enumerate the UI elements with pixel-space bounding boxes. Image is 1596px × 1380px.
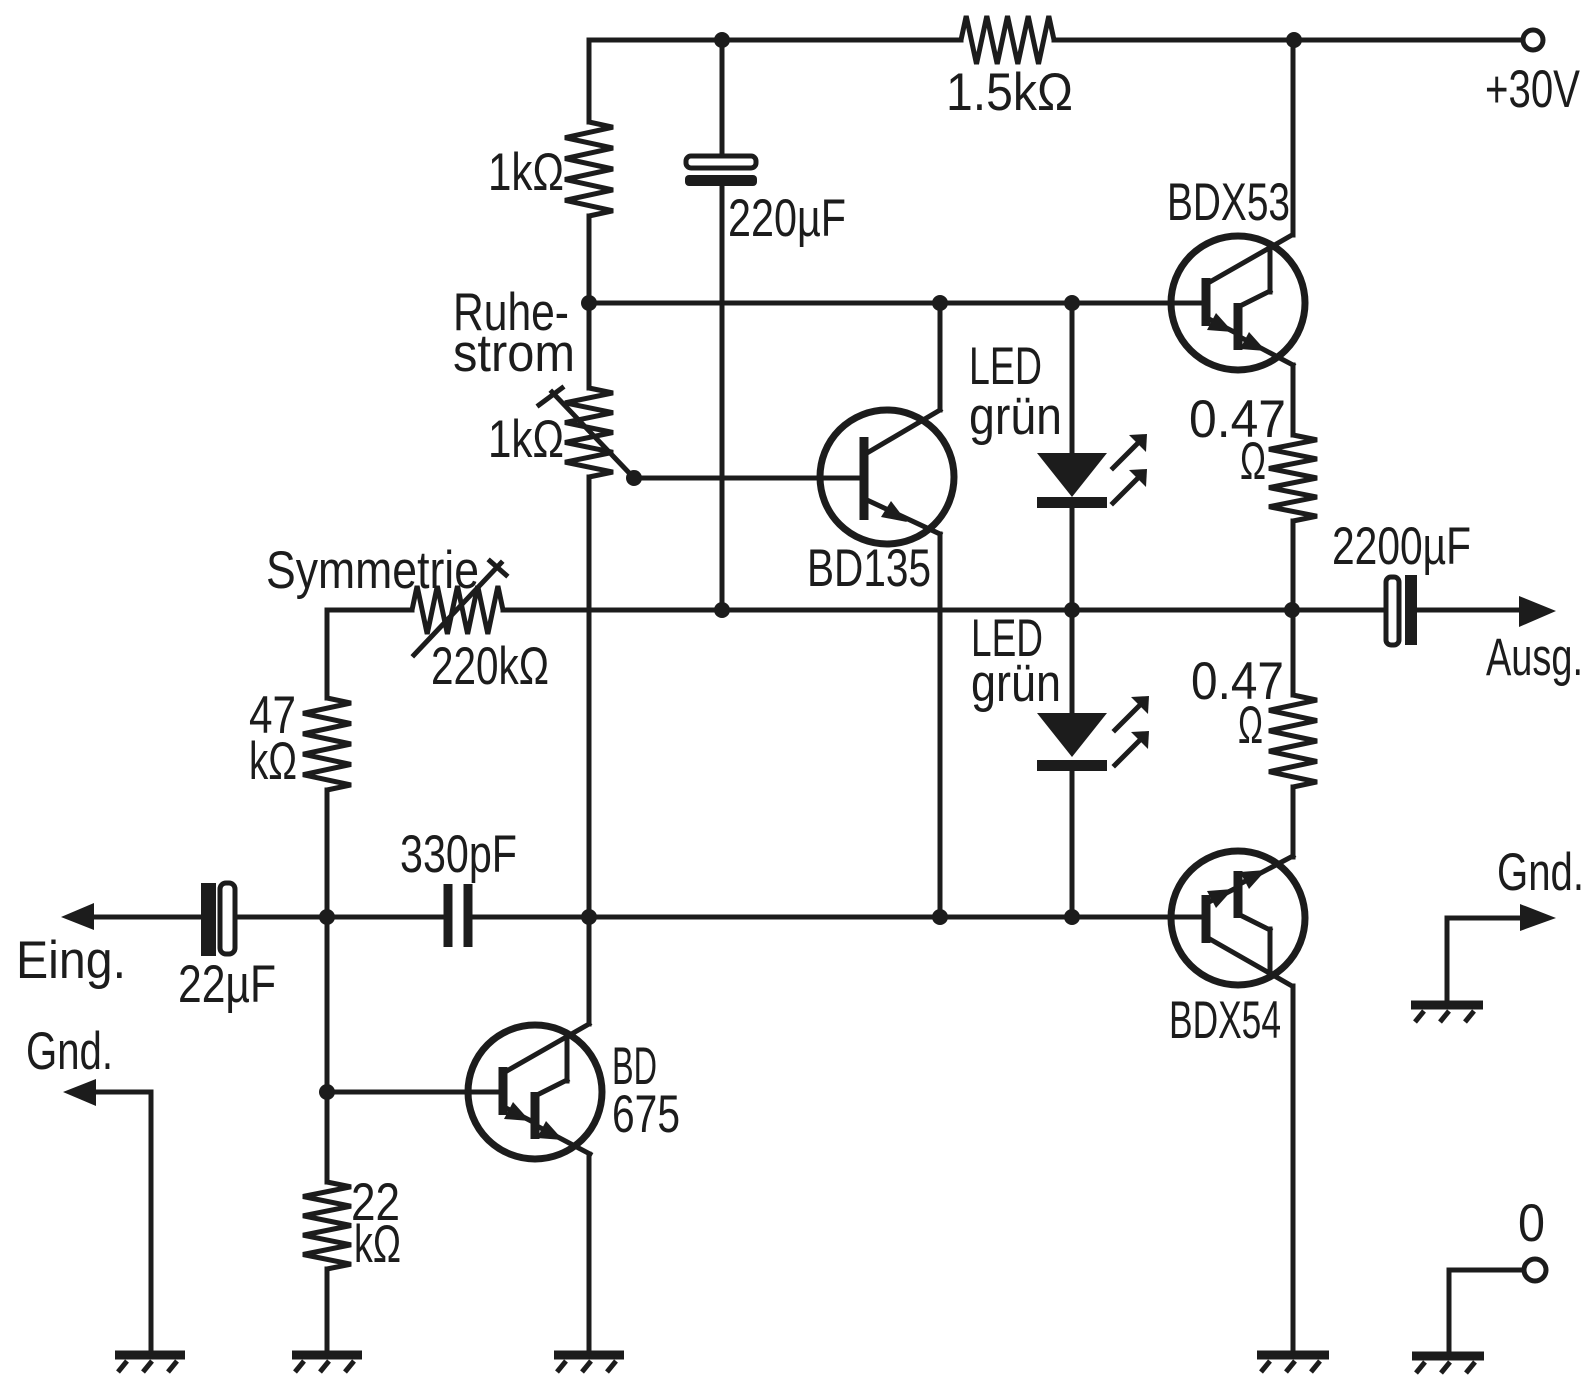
capacitor 22uF negative plate — [220, 883, 235, 954]
wire 220uF bottom lead to output line — [720, 186, 725, 610]
wire BD135 collector pin — [938, 303, 943, 410]
node junction output with 220uF — [714, 602, 730, 618]
wire 0 terminal to corner and down — [1449, 1270, 1524, 1352]
svg-text:675: 675 — [612, 1085, 680, 1144]
BD675 T2 emitter diagonal — [535, 1125, 590, 1154]
BDX54 base bar 1 — [1202, 895, 1211, 943]
wire 330pF to BDX54 base rail — [468, 915, 1206, 920]
svg-text:220µF: 220µF — [728, 189, 846, 248]
BDX53 circle — [1171, 236, 1305, 370]
node junction top rail to BDX53 collector — [1286, 32, 1302, 48]
LED2 emission arrow a — [1115, 696, 1149, 730]
wire left vertical from rail to 1k — [587, 40, 592, 122]
capacitor 2200uF left plate — [1386, 577, 1399, 645]
wire BDX54 collector pin down to ground — [1291, 986, 1296, 1351]
node junction with BD675 collector branch — [581, 909, 597, 925]
transistor Q BD675 darlington — [468, 1024, 602, 1159]
capacitor 22uF positive plate — [201, 883, 216, 956]
BD135 collector diagonal — [867, 410, 940, 453]
svg-text:0.47: 0.47 — [1189, 390, 1286, 449]
resistor 0.47 Ohm lower — [1269, 695, 1317, 787]
svg-text:0: 0 — [1518, 1194, 1545, 1253]
diode LED1 cathode bar — [1037, 497, 1107, 508]
diode LED2 green triangle — [1037, 713, 1107, 757]
wire 22uF to input node — [235, 915, 445, 920]
ground symbol under BDX54 — [1257, 1355, 1329, 1372]
BD135 circle — [820, 410, 954, 544]
node junction LED string top — [1064, 295, 1080, 311]
wire top +30V rail right segment — [1054, 38, 1522, 43]
terminal Eing arrowhead — [61, 903, 94, 930]
wire output to Ausg arrow — [1417, 608, 1521, 613]
terminal Gnd right arrowhead — [1520, 904, 1556, 931]
wire wiper to BD135 base — [634, 476, 864, 481]
svg-text:strom: strom — [453, 324, 575, 383]
svg-text:Symmetrie: Symmetrie — [266, 541, 479, 600]
wire BDX54 emitter pin up — [1291, 787, 1296, 856]
wire LED2 to lower base rail — [1070, 771, 1075, 917]
wire 0.47 lower to BDX54 emitter pin — [1291, 787, 1296, 857]
capacitor 2200uF right plate — [1405, 575, 1417, 645]
BDX53 T2 collector diagonal — [1242, 291, 1270, 305]
wire top +30V rail left segment — [589, 38, 961, 43]
LED2 emission arrow b — [1115, 731, 1149, 765]
potentiometer Symmetrie wiper arm — [414, 563, 501, 655]
BD675 internal collector vertical — [565, 1037, 570, 1081]
node junction with BD135 emitter — [932, 909, 948, 925]
node junction LED string with output line — [1064, 602, 1080, 618]
ground symbol right middle — [1411, 1005, 1483, 1022]
capacitor 330pF right plate — [464, 884, 473, 947]
wire BD675 base node to base bar — [327, 1090, 503, 1095]
node junction BD135 collector — [932, 295, 948, 311]
capacitor 330pF left plate — [444, 884, 453, 947]
potentiometer 1k wiper tee bar — [539, 388, 562, 405]
BDX53 T2 emitter diagonal — [1238, 336, 1293, 365]
transistor Q BD135 — [820, 410, 954, 544]
wire 1k bottom to Ruhestrom node and down to pot — [587, 216, 592, 388]
BD135 emitter diagonal — [867, 500, 940, 534]
BDX53 T1 emitter diagonal — [1207, 318, 1236, 333]
svg-text:Eing.: Eing. — [16, 931, 126, 990]
wire output node to 0.47 lower — [1291, 610, 1296, 695]
BD135 base bar — [860, 437, 869, 520]
wire BDX53 emitter pin to 0.47 — [1291, 365, 1296, 435]
svg-text:1kΩ: 1kΩ — [488, 143, 564, 202]
ground symbol left — [115, 1355, 185, 1372]
BDX53 T1 emitter arrowhead — [1207, 313, 1233, 332]
BDX54 internal collector vertical — [1268, 929, 1273, 973]
resistor R 1kOhm upper — [565, 122, 613, 216]
svg-text:2200µF: 2200µF — [1332, 517, 1471, 576]
BDX54 T2 collector diagonal — [1242, 916, 1270, 930]
capacitor 220uF negative plate — [685, 175, 757, 186]
BD675 T1 emitter arrowhead — [504, 1102, 530, 1121]
BDX53 T2 emitter arrowhead — [1240, 332, 1266, 351]
svg-text:Ω: Ω — [1238, 696, 1263, 755]
wire pot bottom down through output line to feedback node — [587, 477, 592, 917]
BD675 T1 collector diagonal — [505, 1024, 589, 1072]
wire BD675 emitter pin down to ground — [587, 1154, 592, 1351]
wire BDX53 collector pin to rail — [1291, 40, 1296, 235]
terminal +30V open circle — [1523, 30, 1543, 50]
resistor 1.5kOhm in +30V rail — [961, 16, 1054, 64]
wire 47k branch top corner — [325, 610, 330, 698]
BDX53 internal collector vertical — [1268, 248, 1273, 292]
svg-text:Gnd.: Gnd. — [1497, 843, 1584, 902]
potentiometer Symmetrie 220kOhm zigzag — [412, 586, 503, 634]
svg-text:BDX54: BDX54 — [1169, 991, 1281, 1050]
transistor Q BDX53 darlington — [1171, 235, 1305, 370]
terminal 0 open circle — [1524, 1259, 1546, 1281]
BDX53 T1 collector diagonal — [1208, 235, 1292, 283]
node junction top rail to 220uF — [714, 32, 730, 48]
BD675 T1 emitter diagonal — [504, 1107, 533, 1122]
LED1 emission arrow b — [1113, 469, 1147, 503]
svg-text:grün: grün — [969, 387, 1062, 446]
BDX54 T2 emitter diagonal — [1238, 856, 1293, 885]
svg-text:Ausg.: Ausg. — [1486, 628, 1583, 687]
svg-text:Ω: Ω — [1240, 432, 1266, 491]
node junction BD675 base — [319, 1084, 335, 1100]
svg-text:Gnd.: Gnd. — [26, 1022, 113, 1081]
terminal Ausg arrowhead — [1519, 596, 1556, 627]
svg-text:kΩ: kΩ — [249, 732, 297, 791]
wire 22k to ground — [325, 1269, 330, 1351]
BD675 T2 collector diagonal — [539, 1080, 567, 1094]
svg-text:kΩ: kΩ — [354, 1215, 401, 1274]
resistor 0.47 Ohm upper — [1269, 435, 1317, 521]
ground symbol under 22k — [292, 1355, 362, 1372]
wire 0.47 upper to output line — [1291, 521, 1296, 610]
svg-text:1kΩ: 1kΩ — [488, 410, 564, 469]
BDX54 T1 emitter arrowhead — [1207, 889, 1233, 908]
wire Eing to 22uF — [94, 915, 201, 920]
diode LED2 cathode bar — [1037, 760, 1107, 771]
wire BD135 emitter pin down to lower base rail — [938, 534, 943, 917]
node junction input with 47k — [319, 909, 335, 925]
wire LED1 to LED2 — [1070, 508, 1075, 713]
diode LED1 green triangle — [1037, 453, 1107, 497]
BDX54 T1 collector diagonal — [1208, 938, 1292, 986]
resistor 22kOhm — [303, 1182, 351, 1269]
wire output line middle — [503, 608, 1386, 613]
svg-text:BDX53: BDX53 — [1167, 173, 1290, 232]
potentiometer 1k wiper arm diagonal — [552, 392, 634, 478]
wire Ruhestrom rail to BDX53 base — [589, 301, 1206, 306]
wire Gnd left to corner and down — [96, 1092, 151, 1351]
BDX54 T2 emitter arrowhead — [1240, 870, 1266, 889]
potentiometer 1kOhm Ruhestrom zigzag — [565, 388, 613, 477]
LED1 emission arrow a — [1113, 434, 1147, 468]
node junction output with 0.47 resistors — [1284, 602, 1300, 618]
svg-text:22µF: 22µF — [178, 955, 276, 1014]
terminal Gnd left arrowhead — [63, 1079, 96, 1106]
ground symbol under BD675 — [554, 1355, 624, 1372]
node junction with LED string bottom — [1064, 909, 1080, 925]
svg-text:220kΩ: 220kΩ — [431, 637, 549, 696]
svg-text:1.5kΩ: 1.5kΩ — [946, 63, 1073, 122]
svg-text:BD135: BD135 — [807, 539, 931, 598]
node wiper junction — [626, 470, 642, 486]
ground symbol bottom right — [1412, 1356, 1484, 1373]
svg-text:+30V: +30V — [1485, 60, 1580, 119]
wire Gnd right to corner and down — [1447, 918, 1520, 1001]
BD675 base bar 1 — [499, 1067, 508, 1115]
BD675 circle — [468, 1025, 602, 1159]
potentiometer Symmetrie wiper tee bar — [490, 561, 506, 575]
svg-text:330pF: 330pF — [400, 825, 517, 884]
transistor Q BDX54 darlington PNP — [1171, 851, 1305, 986]
BDX54 circle — [1171, 851, 1305, 985]
resistor 47kOhm — [303, 698, 351, 790]
BDX53 base bar 2 — [1234, 303, 1243, 350]
wire BD675 collector pin up to node — [587, 917, 592, 1024]
wire output line from Symmetrie corner — [327, 608, 412, 613]
BDX54 T1 emitter diagonal — [1207, 888, 1236, 903]
svg-text:grün: grün — [971, 654, 1061, 713]
BD135 emitter arrowhead — [881, 501, 907, 522]
BDX53 base bar 1 — [1202, 278, 1211, 326]
BD675 base bar 2 — [531, 1092, 540, 1139]
node Ruhestrom junction — [581, 295, 597, 311]
wire LED string upper lead — [1070, 303, 1075, 453]
wire 47k to input node and down to BD675 base node — [325, 790, 330, 1182]
BDX54 base bar 2 — [1234, 871, 1243, 918]
BD675 T2 emitter arrowhead — [537, 1121, 563, 1140]
wire 220uF top lead — [720, 40, 725, 153]
capacitor 220uF positive plate — [686, 156, 756, 168]
